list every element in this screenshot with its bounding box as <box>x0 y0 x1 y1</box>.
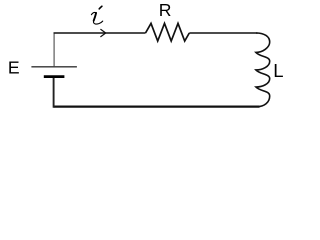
label i : stem <box>94 13 96 21</box>
battery E negative plate (short thick) <box>44 75 65 78</box>
svg-text:R: R <box>159 0 172 20</box>
svg-text:E: E <box>8 58 20 78</box>
resistor R <box>146 23 190 41</box>
wire: bottom return <box>54 105 260 107</box>
label i : entry stroke <box>91 12 95 14</box>
node current arrowhead on top wire <box>101 29 106 36</box>
wire: bottom-left vertical up to battery negative plate <box>53 77 55 108</box>
inductor L coil <box>256 33 270 107</box>
wire: resistor to inductor top corner <box>189 32 257 34</box>
label i : exit tail <box>93 20 102 24</box>
svg-text:L: L <box>273 60 283 81</box>
wire: battery positive plate up to top-left corner <box>53 34 55 67</box>
label i (current) : dot stroke <box>99 6 102 9</box>
battery E positive plate (long) <box>31 66 77 68</box>
wire: top horizontal from corner to resistor <box>54 32 146 34</box>
